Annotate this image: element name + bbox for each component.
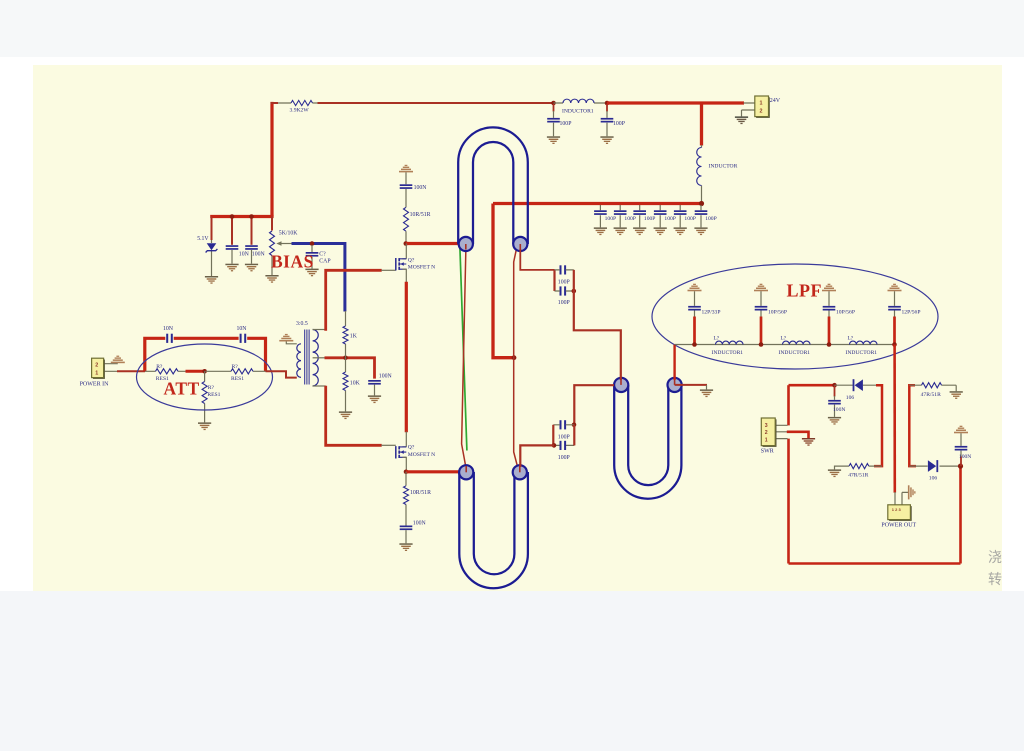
capacitor 10N (bias): [226, 245, 239, 250]
resistor 47R/51R leads (forward): [909, 385, 956, 391]
pad top-right: [513, 237, 527, 251]
ground (SWR pin2): [802, 438, 815, 446]
wire upper MOSFET source lead: [402, 269, 406, 282]
resistor 47R/51R (reflected): [849, 464, 869, 469]
ground (potentiometer): [265, 275, 278, 283]
zener diode 5.1V: [206, 243, 218, 252]
label 5.1V: [197, 236, 209, 242]
svg-text:LPF: LPF: [787, 281, 823, 301]
capacitor 10P/56P (LPF 2): [755, 306, 768, 311]
capacitor 100N stem (bias): [251, 217, 253, 264]
svg-text:2: 2: [765, 430, 768, 436]
ground (decoupling 2): [614, 227, 627, 235]
pin 1 label (24V): [760, 100, 763, 106]
svg-text:ATT: ATT: [164, 379, 200, 399]
label LPF: [787, 281, 823, 301]
capacitor coupling upper 2 leads: [555, 270, 574, 291]
power ground (upper 100N): [399, 165, 413, 173]
wire coupling cap left stub (lower): [552, 425, 554, 446]
resistor R? RES1 (ATT 3): [202, 382, 207, 404]
svg-text:100P: 100P: [558, 280, 570, 286]
transformer primary top lead to ground: [286, 342, 297, 344]
svg-text:MOSFET N: MOSFET N: [408, 452, 435, 458]
transmission line tube (right U): [614, 385, 681, 499]
diode 106 (forward): [928, 460, 938, 472]
capacitor 100P stem (decoupling 1): [599, 205, 601, 227]
capacitor 10N (ATT 2): [240, 334, 247, 343]
label 100P (rail cap 2): [613, 121, 625, 127]
ground stem (right U): [706, 385, 708, 390]
capacitor 100N (upper): [400, 184, 413, 189]
label 100N (mid tap): [379, 374, 393, 380]
svg-text:RES1: RES1: [231, 376, 244, 382]
power ground (LPF 4): [888, 284, 902, 292]
label 10K: [350, 380, 361, 386]
resistor 10R/51R (upper): [404, 207, 409, 231]
wire thick gate drive lower: [326, 386, 382, 446]
resistor 10K: [343, 372, 348, 391]
label INDUCTOR: [709, 163, 738, 169]
svg-text:100P: 100P: [558, 300, 570, 306]
resistor 1K: [343, 326, 348, 344]
pad stub right-U left: [620, 379, 622, 385]
inductor INDUCTOR (vertical): [697, 148, 702, 186]
wire thick LPF branch 4: [893, 317, 896, 345]
svg-text:10K: 10K: [350, 380, 361, 386]
junction dot 10N: [230, 214, 235, 219]
label L? (LPF 3): [848, 335, 854, 341]
label INDUCTOR1 (LPF 2): [779, 350, 811, 356]
wire thick SWR pin2 to ground: [787, 432, 809, 438]
wire reflected detector bottom: [835, 466, 883, 469]
svg-text:100P: 100P: [624, 216, 636, 222]
capacitor 100N stem to ground (lower): [405, 530, 407, 543]
resistor 47R/51R (forward): [922, 383, 942, 388]
pad top-left: [459, 237, 473, 251]
ground (decoupling 1): [594, 227, 607, 235]
svg-text:2: 2: [760, 108, 763, 114]
svg-text:10P/56P: 10P/56P: [836, 310, 855, 316]
inductor INDUCTOR vertical leads: [701, 145, 703, 202]
wire thick interstage (upper source to lower drain): [405, 282, 408, 433]
capacitor 100N (lower): [400, 526, 413, 531]
ground (reflected 47R): [828, 469, 841, 477]
svg-text:CAP: CAP: [319, 259, 330, 265]
connector POWER OUT: [888, 505, 912, 521]
resistor 3.9K2W: [291, 100, 313, 105]
svg-text:3.9K2W: 3.9K2W: [290, 107, 310, 113]
label INDUCTOR1 (LPF 3): [846, 350, 878, 356]
svg-text:10N: 10N: [237, 326, 248, 332]
svg-text:5.1V: 5.1V: [197, 236, 209, 242]
capacitor 100P stem (decoupling 3): [639, 205, 641, 227]
capacitor 100N (mid tap): [368, 380, 381, 385]
wire right-U right pad ground branch: [675, 384, 707, 386]
potentiometer 5K/10K: [270, 231, 275, 256]
label 100P (coupling upper 1): [558, 280, 570, 286]
label 10N (bias): [239, 252, 250, 258]
capacitor 100P (decoupling 1): [594, 210, 607, 215]
wire thick secondary mid tap: [325, 358, 375, 379]
svg-text:10N: 10N: [163, 326, 174, 332]
svg-text:POWER IN: POWER IN: [80, 382, 109, 388]
label 100P (decoupling 1): [605, 216, 617, 222]
svg-text:INDUCTOR: INDUCTOR: [709, 163, 738, 169]
wire green balun link: [460, 248, 467, 451]
wire thick LPF output: [893, 345, 896, 493]
power ground (forward 100N): [954, 426, 968, 434]
svg-text:12P/56P: 12P/56P: [902, 310, 921, 316]
svg-text:47R/51R: 47R/51R: [921, 392, 941, 398]
wire thick SWR loop left vertical lower: [787, 439, 790, 564]
transmission line tube (bottom U): [459, 472, 528, 588]
watermark character 2: [988, 571, 1002, 587]
wire right-U left pad to lower coupling caps: [574, 385, 614, 425]
wire upper MOSFET gate lead: [381, 269, 396, 271]
power ground (POWER IN): [111, 356, 125, 364]
ground (lower 100N): [399, 543, 412, 551]
svg-text:100N: 100N: [252, 252, 266, 258]
wire thick source bar to bottom-left pad: [406, 470, 460, 473]
resistor 10R/51R lower lead (upper): [405, 231, 407, 243]
label 100P (decoupling 2): [624, 216, 636, 222]
svg-text:47R/51R: 47R/51R: [848, 473, 868, 479]
svg-text:R?: R?: [156, 364, 163, 370]
label 100N (reflected): [833, 407, 845, 413]
capacitor 10N stem (bias): [231, 217, 233, 264]
wire LPF main line: [675, 344, 895, 346]
label 100P (decoupling 3): [644, 216, 656, 222]
capacitor 100N stem (reflected): [834, 385, 836, 417]
pin 1 label (SWR): [765, 438, 768, 444]
label 47R/51R (forward): [921, 392, 941, 398]
ellipse LPF: [652, 264, 938, 369]
wire thick LPF branch 1: [693, 317, 696, 345]
junction dot lower source node: [404, 470, 409, 475]
label R? (ATT 3): [208, 385, 215, 391]
svg-text:12P/33P: 12P/33P: [702, 310, 721, 316]
ellipse ATT: [137, 344, 273, 410]
label POWER IN: [80, 382, 109, 388]
pad bottom-right: [513, 465, 527, 479]
resistor R? RES1 leads (ATT 2): [206, 370, 267, 372]
diode 106 leads (forward): [909, 465, 960, 467]
capacitor 100P (coupling lower 2): [560, 441, 567, 450]
connector POWER OUT leads: [895, 492, 908, 505]
pad right-U right: [668, 378, 682, 392]
svg-text:10N: 10N: [239, 252, 250, 258]
label 100N (upper): [414, 185, 428, 191]
label ATT: [164, 379, 200, 399]
capacitor 100P stem (rail cap 2): [606, 104, 608, 136]
svg-text:BIAS: BIAS: [271, 251, 314, 271]
svg-text:浇: 浇: [988, 549, 1002, 565]
junction dot LPF 2: [759, 342, 764, 347]
svg-text:100N: 100N: [833, 407, 845, 413]
capacitor 100P stem (decoupling 6): [700, 205, 702, 227]
diode 106 leads (reflected): [835, 384, 883, 386]
junction dot at 100P cap 2: [605, 101, 610, 106]
pad stub bottom-left: [465, 466, 467, 472]
capacitor C? CAP stem: [311, 245, 313, 269]
svg-text:RES1: RES1: [207, 392, 220, 398]
inductor L? INDUCTOR1 (LPF 3): [850, 341, 878, 344]
svg-text:R?: R?: [208, 385, 215, 391]
capacitor 100N stem (upper): [405, 172, 407, 207]
resistor R? RES1 (ATT 1): [156, 369, 179, 374]
junction dot LPF 4: [892, 342, 897, 347]
wire thick BIAS bar: [210, 215, 273, 218]
junction dot reflected detector: [832, 383, 837, 388]
label 3:0.5: [296, 321, 308, 327]
capacitor 12P/56P (LPF 4): [888, 306, 901, 311]
capacitor 10P/56P (LPF 3): [823, 306, 836, 311]
label 100N (lower): [413, 520, 427, 526]
pin 3 label (SWR): [765, 423, 768, 429]
svg-text:100N: 100N: [959, 454, 971, 460]
wire thick LPF input: [673, 345, 675, 381]
wire blue bias feed: [292, 244, 345, 312]
pin labels (POWER OUT): [892, 507, 902, 512]
transformer secondary bottom lead: [313, 385, 326, 387]
label MOSFET N (lower): [408, 452, 435, 458]
wire lower coupling to bottom-right pad: [520, 445, 554, 467]
capacitor 100N (forward): [955, 446, 968, 451]
capacitor coupling lower 1 leads: [553, 425, 574, 446]
label 5K/10K: [279, 230, 298, 236]
connector J1 24V: [755, 96, 770, 118]
wire thick LPF branch 2: [760, 317, 763, 345]
label 10R/51R (upper): [410, 212, 431, 218]
capacitor 100P stem (decoupling 4): [659, 205, 661, 227]
capacitor 100P stem (decoupling 2): [619, 205, 621, 227]
ground (mid tap 100N): [368, 395, 381, 403]
svg-text:INDUCTOR1: INDUCTOR1: [562, 109, 594, 115]
wire thick decoupling rail y=203.5: [493, 202, 703, 205]
capacitor 100P (rail cap 1): [547, 118, 560, 123]
junction dot mid tap: [343, 356, 348, 361]
wire red balun link (right): [514, 248, 518, 466]
resistor R? RES1 leads (ATT 1): [145, 370, 186, 372]
wire thick SWR loop left vertical upper: [787, 385, 790, 425]
label 100P (coupling upper 2): [558, 300, 570, 306]
svg-text:100P: 100P: [684, 216, 696, 222]
label Q? (lower): [408, 445, 415, 451]
svg-text:100P: 100P: [558, 435, 570, 441]
ground (rail cap 2): [600, 136, 613, 144]
wire thick bus down from decoupling rail: [493, 204, 514, 358]
wire red balun link (left): [462, 248, 467, 469]
label Q? (upper): [408, 257, 415, 263]
label 12P/56P: [902, 310, 921, 316]
label POWER OUT: [881, 522, 916, 528]
svg-text:R?: R?: [232, 364, 239, 370]
power ground (LPF 3): [822, 284, 836, 292]
svg-text:100P: 100P: [558, 455, 570, 461]
svg-text:MOSFET N: MOSFET N: [408, 265, 435, 271]
label 10P/56P: [768, 310, 787, 316]
svg-text:3:0.5: 3:0.5: [296, 321, 308, 327]
label RES1 (ATT 1): [156, 376, 169, 382]
resistor 10K stem: [345, 358, 347, 412]
label L? (LPF 1): [714, 335, 720, 341]
ground (24V connector): [735, 116, 748, 124]
svg-text:1: 1: [95, 371, 98, 377]
wire thick drop to vertical inductor: [700, 103, 703, 146]
label 100N (forward): [959, 454, 971, 460]
junction blob forward detector: [958, 464, 963, 469]
label MOSFET N (upper): [408, 265, 435, 271]
label C?: [319, 251, 326, 257]
svg-text:100P: 100P: [560, 121, 572, 127]
wire thick ATT bypass middle: [174, 337, 239, 340]
label 100P (decoupling 4): [664, 216, 676, 222]
capacitor stem (LPF 1): [694, 291, 696, 317]
label 10N (ATT 2): [237, 326, 248, 332]
label 10P/56P: [836, 310, 855, 316]
pad stub top-left: [465, 244, 467, 250]
svg-text:100P: 100P: [613, 121, 625, 127]
label 47R/51R (reflected): [848, 473, 868, 479]
wire thick SWR loop top: [789, 384, 835, 387]
label 106 (forward): [929, 475, 938, 481]
label INDUCTOR1: [562, 109, 594, 115]
pad stub top-right: [519, 244, 521, 250]
capacitor 10N (ATT 1): [166, 334, 173, 343]
capacitor 12P/33P (LPF 1): [688, 306, 701, 311]
wire resistor 3.9K2W leads: [278, 102, 318, 104]
capacitor 100P (decoupling 4): [654, 210, 667, 215]
junction dot coupling upper: [572, 289, 577, 294]
wire input signal: [117, 370, 145, 372]
ground (right U): [700, 389, 713, 397]
wire top rail to +24V junction: [318, 102, 554, 104]
capacitor 100P (coupling upper 1): [560, 265, 567, 274]
svg-text:INDUCTOR1: INDUCTOR1: [712, 350, 744, 356]
ground (decoupling 5): [674, 227, 687, 235]
svg-text:Q?: Q?: [408, 257, 415, 263]
wire thick ATT bypass left: [145, 338, 166, 371]
transformer secondary top lead: [313, 329, 326, 331]
zener D? 5.1V stem: [211, 217, 213, 277]
capacitor 100P (decoupling 3): [633, 210, 646, 215]
capacitor 100N stem to ground (mid tap): [374, 385, 376, 396]
transmission line tube (top U): [458, 127, 528, 244]
svg-text:C?: C?: [319, 251, 326, 257]
resistor 10R/51R stem (lower): [405, 472, 407, 526]
wire lower MOSFET source lead: [402, 457, 406, 472]
capacitor 100N (bias): [245, 245, 258, 250]
connector POWER IN leads: [104, 364, 118, 372]
svg-text:L?: L?: [714, 335, 720, 341]
label 100P (rail cap 1): [560, 121, 572, 127]
capacitor 100P stem (decoupling 5): [679, 205, 681, 227]
label 100P (coupling lower 2): [558, 455, 570, 461]
transistor Q? MOSFET N (upper): [396, 258, 407, 270]
svg-text:1K: 1K: [350, 333, 358, 339]
wire top rail left stub: [271, 102, 279, 104]
connector POWER IN: [92, 358, 105, 379]
svg-text:SWR: SWR: [761, 449, 774, 455]
svg-text:100N: 100N: [414, 185, 428, 191]
label SWR: [761, 449, 774, 455]
transformer secondary mid lead: [313, 357, 325, 359]
svg-text:2: 2: [95, 363, 98, 369]
capacitor 100P (rail cap 2): [601, 118, 614, 123]
ground (decoupling 6): [694, 227, 707, 235]
label 100P (decoupling 5): [684, 216, 696, 222]
potentiometer 5K/10K stem: [271, 217, 273, 276]
label 3.9K2W: [290, 107, 310, 113]
capacitor stem (LPF 3): [828, 291, 830, 317]
ground (rail cap 1): [547, 136, 560, 144]
power ground (LPF 1): [688, 284, 702, 292]
svg-text:100N: 100N: [379, 374, 393, 380]
wire thick drain bar to top-left pad: [406, 242, 460, 245]
power ground sideways (POWER OUT): [908, 485, 916, 499]
label 100P (coupling lower 1): [558, 435, 570, 441]
capacitor C? CAP: [306, 252, 319, 257]
label CAP: [319, 259, 330, 265]
svg-text:10P/56P: 10P/56P: [768, 310, 787, 316]
wire top-right pad to coupling caps: [520, 249, 554, 270]
label 12P/33P: [702, 310, 721, 316]
svg-text:POWER OUT: POWER OUT: [881, 522, 916, 528]
svg-text:Q?: Q?: [408, 445, 415, 451]
connector SWR: [761, 418, 776, 447]
ground (ATT): [198, 422, 211, 430]
ground (bias 100N): [245, 264, 258, 272]
pin 2 label (POWER IN): [95, 363, 98, 369]
label R? (ATT 2): [232, 364, 239, 370]
capacitor 100P (coupling upper 2): [560, 286, 567, 295]
wire forward detector left vertical: [909, 385, 916, 466]
label INDUCTOR1 (LPF 1): [712, 350, 744, 356]
capacitor 100P (decoupling 6): [695, 210, 708, 215]
resistor 1K stem: [345, 311, 347, 358]
svg-text:106: 106: [846, 395, 855, 401]
resistor R? RES1 stem (ATT 3): [204, 371, 206, 422]
label 100P (decoupling 6): [705, 216, 717, 222]
junction dot LPF 1: [692, 342, 697, 347]
wire thick +24V rail: [607, 101, 744, 104]
label 10R/51R (lower): [410, 490, 431, 496]
ground (bias cap): [305, 269, 318, 277]
ground (reflected 100N): [828, 417, 841, 425]
ground (decoupling 4): [654, 227, 667, 235]
wire thick LPF branch 3: [828, 317, 831, 345]
capacitor stem (LPF 2): [760, 291, 762, 317]
svg-text:100P: 100P: [605, 216, 617, 222]
inductor L? INDUCTOR1 (LPF 1): [716, 341, 744, 344]
capacitor 100N stem (forward): [960, 433, 962, 466]
label RES1 (ATT 2): [231, 376, 244, 382]
label BIAS: [271, 251, 314, 271]
junction dot 100N: [249, 214, 254, 219]
inductor INDUCTOR1: [563, 99, 594, 103]
junction dot at 100P cap 1: [551, 101, 556, 106]
capacitor 100P (coupling lower 1): [560, 420, 567, 429]
wire thick SWR loop bottom: [789, 562, 961, 565]
junction blob decoupling rail right end: [699, 201, 704, 206]
connector J1 24V leads: [742, 103, 755, 116]
wire top-left corner vertical to BIAS bar: [270, 102, 273, 217]
svg-text:10R/51R: 10R/51R: [410, 212, 431, 218]
connector SWR leads: [775, 425, 787, 438]
wire thick gate drive upper: [326, 270, 382, 331]
capacitor 100P stem (rail cap 1): [553, 104, 555, 136]
resistor 10R/51R (lower): [404, 486, 409, 505]
